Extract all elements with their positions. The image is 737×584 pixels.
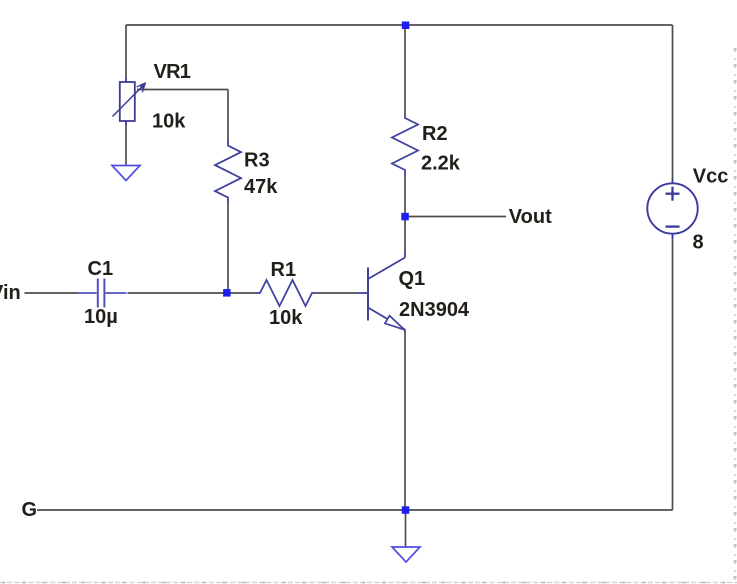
voltage source Vcc (647, 179, 697, 239)
wire Vin to C1 (25, 292, 78, 294)
transistor Q1 (357, 251, 406, 332)
wire Vout stub (405, 216, 506, 218)
capacitor C1 (78, 279, 127, 308)
ground under VR1 (112, 166, 140, 181)
svg-text:VR1: VR1 (154, 61, 191, 83)
junction Vout node (401, 213, 409, 221)
potentiometer VR1 (113, 78, 144, 125)
svg-text:Vout: Vout (509, 206, 552, 228)
svg-text:R1: R1 (271, 259, 297, 281)
svg-text:C1: C1 (88, 258, 114, 280)
svg-text:Q1: Q1 (399, 268, 426, 290)
wire R1 to Q1 base (316, 292, 357, 294)
svg-text:2N3904: 2N3904 (399, 299, 470, 321)
junction top rail (402, 22, 410, 30)
wire right vertical upper (672, 25, 674, 179)
wire R2 to Vout node (404, 176, 406, 252)
wire Q1 emitter down (404, 331, 406, 510)
junction input node (223, 289, 231, 297)
wire bottom rail (37, 509, 673, 511)
wire top rail (126, 24, 673, 26)
wire right vertical lower (672, 238, 674, 510)
svg-text:10k: 10k (269, 307, 303, 329)
svg-text:Vin: Vin (0, 282, 21, 304)
svg-text:Vcc: Vcc (693, 166, 729, 188)
svg-text:47k: 47k (244, 176, 278, 198)
svg-text:10k: 10k (152, 110, 186, 132)
wire top rail down to R2 (404, 25, 406, 116)
wire bottom node to ground (405, 510, 407, 547)
svg-text:R2: R2 (422, 123, 448, 145)
wire C1 to R1 (128, 292, 256, 294)
wire R3 bottom to input node (227, 202, 229, 294)
svg-text:G: G (22, 499, 38, 521)
wire VR1 to ground (125, 125, 127, 166)
Q1 emitter arrow (385, 316, 405, 330)
wire wiper down to R3 (227, 90, 229, 141)
svg-text:8: 8 (693, 232, 704, 254)
svg-text:2.2k: 2.2k (421, 153, 461, 175)
svg-text:10µ: 10µ (84, 306, 118, 328)
resistor R3 (215, 140, 241, 202)
resistor R1 (255, 280, 317, 306)
svg-text:R3: R3 (244, 149, 270, 171)
VR1 arrowhead (139, 82, 146, 89)
ground bottom (392, 547, 420, 562)
resistor R2 (392, 116, 418, 177)
junction bottom rail (402, 506, 410, 514)
wire VR1 wiper horizontal (137, 89, 228, 91)
wire left vertical to VR1 (125, 25, 127, 79)
